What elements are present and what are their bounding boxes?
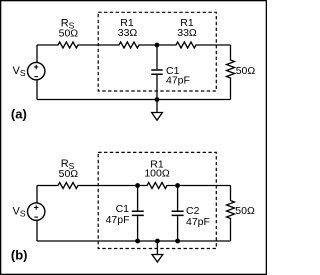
svg-text:47pF: 47pF xyxy=(186,216,210,228)
svg-text:50Ω: 50Ω xyxy=(59,27,79,39)
svg-text:50Ω: 50Ω xyxy=(235,205,255,217)
svg-text:VS: VS xyxy=(12,206,25,219)
svg-text:47pF: 47pF xyxy=(166,75,190,87)
svg-text:50Ω: 50Ω xyxy=(236,65,256,77)
svg-text:(a): (a) xyxy=(11,106,27,121)
svg-text:(b): (b) xyxy=(11,248,28,263)
svg-text:33Ω: 33Ω xyxy=(118,27,138,39)
svg-text:50Ω: 50Ω xyxy=(59,168,79,180)
svg-text:100Ω: 100Ω xyxy=(144,168,170,180)
svg-text:47pF: 47pF xyxy=(106,214,130,226)
svg-text:VS: VS xyxy=(12,65,25,78)
svg-text:33Ω: 33Ω xyxy=(177,27,197,39)
